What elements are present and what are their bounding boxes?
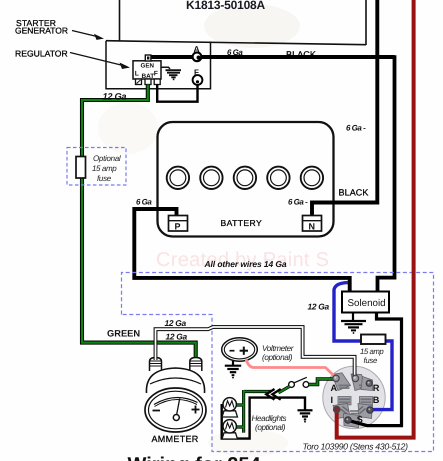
terminal A (circle) <box>193 44 202 61</box>
engine box K1813 <box>106 0 366 45</box>
svg-text:R: R <box>373 383 380 393</box>
fuse 15amp (on blue wire) <box>360 335 386 366</box>
black wire: headlights return to ground <box>222 398 305 439</box>
svg-text:A: A <box>194 44 200 54</box>
svg-text:6 Ga: 6 Ga <box>227 48 243 57</box>
svg-text:Voltmeter: Voltmeter <box>262 344 294 353</box>
green wire: headlights to connector <box>236 386 290 432</box>
svg-text:AMMETER: AMMETER <box>152 434 199 444</box>
label BLACK (top) <box>286 50 316 60</box>
svg-text:P: P <box>175 222 181 232</box>
svg-text:6 Ga -: 6 Ga - <box>346 124 366 133</box>
svg-text:N: N <box>309 222 316 232</box>
label Toro part number <box>303 442 409 452</box>
svg-text:12 Ga: 12 Ga <box>165 318 187 328</box>
label BLACK (N wire) <box>339 188 369 198</box>
svg-text:I: I <box>331 395 334 405</box>
label Voltmeter (optional) <box>262 344 294 362</box>
regulator ground symbol <box>161 67 181 79</box>
ignition studs <box>333 375 373 423</box>
svg-text:6 Ga -: 6 Ga - <box>288 198 308 207</box>
label All other wires 14 Ga <box>204 259 287 269</box>
svg-text:Wiring for 254: Wiring for 254 <box>128 454 262 461</box>
svg-text:Headlights: Headlights <box>252 414 287 423</box>
label STARTER GENERATOR <box>15 18 68 36</box>
svg-text:Solenoid: Solenoid <box>348 298 386 309</box>
ignition lug top <box>351 374 367 391</box>
green wire: headlight switch to ignition A <box>309 379 335 385</box>
svg-text:15 amp: 15 amp <box>360 347 384 356</box>
leader arrow to regulator <box>70 53 130 70</box>
ignition labels <box>331 383 380 425</box>
wire: battery P to solenoid (thick) <box>134 209 349 292</box>
fuse (on green wire) <box>76 157 86 179</box>
svg-text:K1813-50108A: K1813-50108A <box>186 0 266 12</box>
ignition lug R <box>361 377 373 391</box>
ignition lug A <box>332 373 351 391</box>
ammeter body <box>146 368 204 393</box>
headlight switch <box>289 377 309 387</box>
headlight lamp 2 <box>222 420 238 439</box>
solenoid box <box>342 292 389 313</box>
white wire: ammeter to ignition top stud <box>156 327 355 378</box>
scan shading blob <box>98 4 300 457</box>
wire: GEN tab to A terminal (thick) <box>149 55 395 59</box>
svg-text:BLACK: BLACK <box>339 188 369 198</box>
svg-text:All other wires 14 Ga: All other wires 14 Ga <box>204 259 287 269</box>
label 6 Ga (top) <box>227 48 243 57</box>
svg-text:GEN: GEN <box>141 63 155 70</box>
ammeter face <box>145 388 206 432</box>
svg-text:12 Ga: 12 Ga <box>166 332 188 342</box>
wire: green 12Ga from BAT foot to ammeter <box>82 85 196 361</box>
wire: battery N 6Ga black up <box>312 0 377 217</box>
ignition lug S <box>344 410 361 427</box>
label BATTERY <box>221 218 263 228</box>
leader arrow to generator <box>72 31 104 40</box>
regulator terminal feet L BAT F <box>136 79 161 85</box>
headlight lamp 1 <box>222 398 238 417</box>
svg-text:BATTERY: BATTERY <box>221 218 263 228</box>
ignition lug B <box>360 397 373 405</box>
ignition switch body <box>323 366 385 428</box>
wire: 6Ga BLACK from A down to solenoid <box>378 55 395 292</box>
svg-text:Optional: Optional <box>93 154 121 163</box>
svg-text:fuse: fuse <box>97 174 112 183</box>
label 12 Ga (white wire, above) <box>165 318 187 328</box>
svg-text:(optional): (optional) <box>255 423 286 432</box>
svg-text:6 Ga: 6 Ga <box>136 198 152 207</box>
wire: F circle loop to regulator F foot <box>157 80 197 102</box>
svg-text:REGULATOR: REGULATOR <box>15 49 68 59</box>
ignition lug lower-left <box>333 404 350 419</box>
label Headlights (optional) <box>252 414 287 432</box>
label AMMETER <box>152 434 199 444</box>
ignition lug I <box>338 397 351 405</box>
dashed harness box <box>122 273 434 452</box>
svg-text:L: L <box>135 71 139 78</box>
bottom caption (cut off) <box>128 454 262 461</box>
label 12 Ga (green wire) <box>166 332 188 342</box>
svg-text:15 amp: 15 amp <box>92 164 117 173</box>
label 12 Ga (solenoid) <box>308 302 330 312</box>
battery cells <box>167 167 323 189</box>
svg-text:12 Ga: 12 Ga <box>103 92 127 102</box>
label 6 Ga (P wire) <box>136 198 152 207</box>
terminal F (circle) <box>193 68 203 85</box>
svg-text:(optional): (optional) <box>262 353 293 362</box>
svg-text:GREEN: GREEN <box>107 329 140 339</box>
svg-text:F: F <box>154 71 158 78</box>
label GREEN <box>107 329 140 339</box>
voltmeter ground <box>225 361 241 379</box>
battery terminal P <box>169 216 188 232</box>
label 6 Ga (N wire) <box>288 198 308 207</box>
dark red wire: ignition to top right <box>337 0 414 438</box>
connector chevrons <box>266 389 281 400</box>
pink wire: voltmeter + to ignition A <box>246 359 337 378</box>
ammeter posts <box>150 358 202 372</box>
starter generator box <box>106 41 211 89</box>
svg-text:BLACK: BLACK <box>286 50 316 60</box>
svg-text:12 Ga: 12 Ga <box>308 302 330 312</box>
battery terminal N <box>303 216 322 232</box>
svg-text:GENERATOR: GENERATOR <box>15 26 68 36</box>
svg-text:Toro 103990 (Stens 430-512): Toro 103990 (Stens 430-512) <box>303 442 409 452</box>
watermark <box>156 249 329 271</box>
svg-text:S: S <box>357 414 363 424</box>
label REGULATOR <box>15 49 68 59</box>
svg-text:A: A <box>331 383 338 393</box>
optional fuse dashed box <box>67 148 126 186</box>
label 12 Ga (regulator feed) <box>103 92 127 102</box>
headlight ground <box>298 410 313 422</box>
black wire: solenoid to ignition S <box>349 313 402 426</box>
label 6 Ga (right vertical) <box>346 124 366 133</box>
blue wire: solenoid to ignition B via fuse <box>334 283 392 410</box>
svg-text:B: B <box>373 395 380 405</box>
battery box <box>158 122 334 237</box>
ignition lug lower-right <box>357 404 373 419</box>
svg-text:fuse: fuse <box>364 356 379 365</box>
voltmeter <box>222 338 258 361</box>
regulator box <box>133 55 161 80</box>
svg-text:F: F <box>194 68 199 77</box>
solenoid ground <box>341 313 366 334</box>
